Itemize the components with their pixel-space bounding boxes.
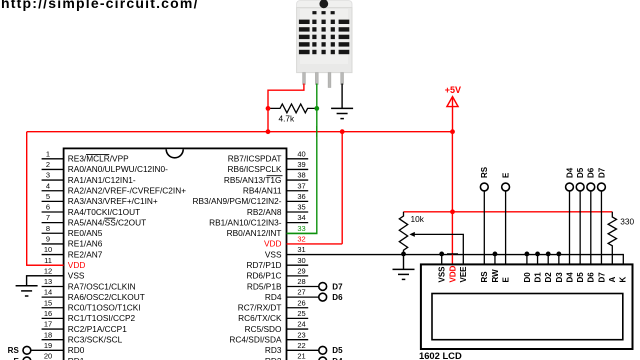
- svg-text:VEE: VEE: [459, 266, 468, 283]
- node RS terminal (U1 RD0): [23, 346, 31, 354]
- svg-text:RE0/AN5: RE0/AN5: [68, 228, 103, 238]
- wire +5V down to LCD VDD: [451, 132, 453, 264]
- LCD pin D3: [558, 254, 560, 265]
- svg-text:17: 17: [44, 320, 52, 329]
- svg-text:RD2: RD2: [265, 356, 282, 360]
- DHT22 top cap: [297, 1, 352, 9]
- svg-text:VDD: VDD: [448, 265, 457, 282]
- DHT22 sensor: [297, 0, 352, 87]
- svg-text:RC6/TX/CK: RC6/TX/CK: [238, 313, 282, 323]
- U1 pin 8 wire: [42, 232, 64, 234]
- svg-text:30: 30: [297, 256, 305, 265]
- svg-text:RB7/ICSPDAT: RB7/ICSPDAT: [228, 154, 282, 164]
- svg-text:20: 20: [44, 352, 52, 360]
- node D7 terminal: [600, 191, 602, 264]
- svg-text:12: 12: [44, 266, 52, 275]
- U1 pin 16 wire: [42, 317, 64, 319]
- svg-text:RA6/OSC2/CLKOUT: RA6/OSC2/CLKOUT: [68, 292, 145, 302]
- svg-text:RS: RS: [480, 166, 489, 178]
- svg-text:1602 LCD: 1602 LCD: [419, 350, 462, 360]
- svg-text:RS: RS: [8, 346, 20, 355]
- DHT22 pin 4: [341, 73, 344, 85]
- wire rail down to U1 pin 32 VDD: [341, 132, 343, 244]
- svg-text:RD1: RD1: [68, 356, 85, 360]
- svg-text:22: 22: [297, 341, 305, 350]
- node D7 terminal (right): [319, 283, 327, 291]
- U1 pin 34 wire: [287, 222, 309, 224]
- U1 pin 27 wire: [287, 296, 319, 298]
- svg-text:RA1/AN1/C12IN1-: RA1/AN1/C12IN1-: [68, 175, 136, 185]
- U1 pin 39 wire: [287, 168, 309, 170]
- svg-text:RE3/MCLR/VPP: RE3/MCLR/VPP: [68, 154, 129, 164]
- svg-text:RD4: RD4: [265, 292, 282, 302]
- junction VDD line / pot-330 line: [450, 209, 455, 214]
- svg-text:RD7/P1D: RD7/P1D: [246, 260, 281, 270]
- U1 pin 17 wire: [42, 328, 64, 330]
- svg-text:11: 11: [44, 256, 52, 265]
- svg-text:RC5/SDO: RC5/SDO: [245, 324, 282, 334]
- +5V power symbol: [447, 97, 458, 132]
- svg-text:29: 29: [297, 266, 305, 275]
- junction bus / LCD RW: [493, 252, 498, 257]
- svg-text:RA2/AN2/VREF-/CVREF/C2IN+: RA2/AN2/VREF-/CVREF/C2IN+: [68, 186, 186, 196]
- U1 pin 37 wire: [287, 190, 309, 192]
- svg-text:D5: D5: [576, 272, 585, 283]
- U1 pin 5 wire: [42, 200, 64, 202]
- U1 pin 22 wire: [287, 349, 319, 351]
- svg-text:36: 36: [297, 192, 305, 201]
- svg-text:4: 4: [46, 181, 50, 190]
- svg-text:35: 35: [297, 203, 305, 212]
- node D4 terminal (right): [319, 357, 327, 360]
- junction bus / LCD D1: [535, 252, 540, 257]
- wire +5V horizontal to pot and 330: [404, 211, 613, 213]
- U1 notch: [166, 149, 183, 158]
- wire DHT pin4 to ground: [341, 84, 343, 109]
- svg-text:RD5/P1B: RD5/P1B: [247, 281, 282, 291]
- svg-text:RD0: RD0: [68, 345, 85, 355]
- DHT22 pin 3: [328, 73, 331, 88]
- ground (U1 VSS): [16, 286, 38, 296]
- junction 4.7k left / +5V: [266, 106, 271, 111]
- svg-text:1: 1: [46, 149, 50, 158]
- svg-text:D3: D3: [555, 272, 564, 283]
- LCD display window: [432, 294, 623, 340]
- svg-text:27: 27: [297, 288, 305, 297]
- LCD pin VSS: [441, 254, 443, 265]
- U1 pin 7 wire: [42, 222, 64, 224]
- U1 pin 1 wire: [42, 158, 64, 160]
- U1 pin 40 wire: [287, 158, 309, 160]
- junction bus / LCD D3: [556, 252, 561, 257]
- U1 pin 18 wire: [42, 339, 64, 341]
- svg-text:RW: RW: [491, 269, 500, 283]
- svg-text:RS: RS: [480, 271, 489, 283]
- resistor 330 backlight: [608, 212, 616, 264]
- junction bus / LCD D0: [525, 252, 530, 257]
- node RS terminal: [483, 191, 485, 264]
- U1 pin 28 wire: [287, 285, 319, 287]
- svg-text:D1: D1: [533, 272, 542, 283]
- svg-text:A: A: [608, 277, 617, 283]
- node D4 terminal: [569, 191, 571, 264]
- U1 pin 31 wire: [287, 254, 624, 256]
- U1 pin 29 wire: [287, 275, 309, 277]
- node D6 terminal: [590, 191, 592, 264]
- svg-text:E: E: [502, 277, 511, 283]
- svg-text:6: 6: [46, 203, 50, 212]
- ground (DHT22): [331, 108, 353, 118]
- svg-text:E: E: [502, 172, 511, 178]
- svg-text:13: 13: [44, 277, 52, 286]
- U1 pin 3 wire: [42, 179, 64, 181]
- svg-text:RB2/AN8: RB2/AN8: [247, 207, 282, 217]
- U1 pin 2 wire: [42, 168, 64, 170]
- svg-text:RA0/AN0/ULPWU/C12IN0-: RA0/AN0/ULPWU/C12IN0-: [68, 164, 168, 174]
- svg-text:33: 33: [297, 224, 305, 233]
- U1 pin 9 wire: [42, 243, 64, 245]
- svg-text:D2: D2: [544, 272, 553, 283]
- svg-text:VSS: VSS: [265, 249, 282, 259]
- svg-text:15: 15: [44, 298, 52, 307]
- U1 pin 14 wire: [42, 296, 64, 298]
- junction rail / +5V symbol: [450, 129, 455, 134]
- svg-text:8: 8: [46, 224, 50, 233]
- svg-text:RC0/T1OSO/T1CKI: RC0/T1OSO/T1CKI: [68, 303, 141, 313]
- DHT22 pin 1: [303, 73, 306, 85]
- svg-text:39: 39: [297, 160, 305, 169]
- svg-text:RC2/P1A/CCP1: RC2/P1A/CCP1: [68, 324, 127, 334]
- U1 pin 36 wire: [287, 200, 309, 202]
- wire green over rail crossing: [316, 126, 318, 137]
- U1 pin 32 wire: [287, 243, 343, 245]
- U1 pin 38 wire: [287, 179, 309, 181]
- U1 pin 26 wire: [287, 307, 309, 309]
- node E terminal (U1 RD1): [23, 357, 31, 360]
- svg-text:38: 38: [297, 171, 305, 180]
- LCD pin D2: [547, 254, 549, 265]
- svg-text:18: 18: [44, 330, 52, 339]
- svg-text:RA7/OSC1/CLKIN: RA7/OSC1/CLKIN: [68, 281, 136, 291]
- svg-text:VDD: VDD: [68, 260, 86, 270]
- svg-text:VDD: VDD: [264, 239, 282, 249]
- node D5 terminal (right): [319, 346, 327, 354]
- svg-text:RE1/AN6: RE1/AN6: [68, 239, 103, 249]
- svg-text:RA4/T0CKI/C1OUT: RA4/T0CKI/C1OUT: [68, 207, 140, 217]
- PIC16F887 microcontroller U1: [27, 148, 624, 360]
- U1 pin 33 wire: [287, 232, 317, 234]
- svg-text:D7: D7: [332, 282, 343, 291]
- svg-text:40: 40: [297, 149, 305, 158]
- U1 pin 6 wire: [42, 211, 64, 213]
- junction bus / LCD D2: [546, 252, 551, 257]
- U1 pin 35 wire: [287, 211, 309, 213]
- svg-text:330: 330: [620, 217, 634, 227]
- svg-text:16: 16: [44, 309, 52, 318]
- svg-text:32: 32: [297, 235, 305, 244]
- DHT22 body: [297, 8, 352, 73]
- svg-text:D6: D6: [587, 272, 596, 283]
- LCD pin D1: [537, 254, 539, 265]
- svg-text:RC3/SCK/SCL: RC3/SCK/SCL: [68, 334, 123, 344]
- svg-text:RC4/SDI/SDA: RC4/SDI/SDA: [229, 334, 282, 344]
- resistor 4.7k pull-up: [268, 104, 317, 113]
- U1 pin 15 wire: [42, 307, 64, 309]
- U1 pin 4 wire: [42, 190, 64, 192]
- svg-text:RC1/T1OSI/CCP2: RC1/T1OSI/CCP2: [68, 313, 136, 323]
- wire U1 VSS pin12 to ground: [27, 276, 64, 286]
- 1602 LCD module: [421, 264, 633, 349]
- wire DHT pin2 data (green) to U1 pin 33: [287, 84, 317, 234]
- U1 pin 25 wire: [287, 317, 309, 319]
- potentiometer RV1 10k: [399, 212, 407, 254]
- svg-text:RB0/AN12/INT: RB0/AN12/INT: [227, 228, 282, 238]
- svg-text:RD3: RD3: [265, 345, 282, 355]
- U1 pin 13 wire: [42, 285, 64, 287]
- svg-text:26: 26: [297, 298, 305, 307]
- svg-text:25: 25: [297, 309, 305, 318]
- U1 chip body: [64, 148, 287, 360]
- svg-text:7: 7: [46, 213, 50, 222]
- svg-text:K: K: [619, 277, 628, 283]
- svg-text:37: 37: [297, 181, 305, 190]
- svg-text:RB3/AN9/PGM/C12IN2-: RB3/AN9/PGM/C12IN2-: [193, 196, 282, 206]
- U1 pin 10 wire: [42, 254, 64, 256]
- U1 pin 11 wire: [27, 264, 64, 266]
- svg-text:D0: D0: [523, 272, 532, 283]
- junction bus / LCD VSS: [439, 252, 444, 257]
- svg-text:10k: 10k: [411, 214, 425, 224]
- title url text: [1, 0, 199, 11]
- svg-text:D5: D5: [576, 167, 585, 178]
- svg-text:10: 10: [44, 245, 52, 254]
- svg-text:D5: D5: [332, 346, 343, 355]
- svg-text:VSS: VSS: [68, 271, 85, 281]
- svg-text:2: 2: [46, 160, 50, 169]
- wire bus down to LCD K pin: [622, 254, 624, 265]
- svg-text:21: 21: [297, 352, 305, 360]
- node E terminal: [505, 191, 507, 264]
- node D5 terminal: [579, 191, 581, 264]
- wire rail down to U1 pin 11 VDD: [27, 132, 64, 266]
- DHT22 vent slots: [299, 11, 349, 54]
- svg-text:+5V: +5V: [445, 85, 461, 95]
- junction rail / DHT pin1 branch: [266, 129, 271, 134]
- node D6 terminal (right): [319, 293, 327, 301]
- svg-text:RE2/AN7: RE2/AN7: [68, 249, 103, 259]
- svg-text:14: 14: [44, 288, 52, 297]
- svg-text:RB5/AN13/T1G: RB5/AN13/T1G: [224, 175, 282, 185]
- svg-text:34: 34: [297, 213, 305, 222]
- svg-text:4.7k: 4.7k: [279, 114, 296, 124]
- svg-text:D4: D4: [565, 167, 574, 178]
- svg-text:RD6/P1C: RD6/P1C: [246, 271, 281, 281]
- svg-text:D6: D6: [332, 293, 343, 302]
- svg-text:RB6/ICSPCLK: RB6/ICSPCLK: [228, 164, 282, 174]
- junction 4.7k right / DHT data: [314, 106, 319, 111]
- svg-text:23: 23: [297, 330, 305, 339]
- ground (bus near LCD): [403, 254, 405, 270]
- DHT22 top circle: [319, 0, 328, 8]
- svg-text:RC7/RX/DT: RC7/RX/DT: [238, 303, 282, 313]
- svg-text:28: 28: [297, 277, 305, 286]
- U1 pin 12 wire: [27, 275, 64, 277]
- junction bus / pot bottom / ground: [401, 252, 406, 257]
- svg-text:VSS: VSS: [438, 266, 447, 283]
- wire bus over VDD crossing: [447, 253, 458, 255]
- svg-text:3: 3: [46, 171, 50, 180]
- svg-text:RA3/AN3/VREF+/C1IN+: RA3/AN3/VREF+/C1IN+: [68, 196, 158, 206]
- svg-text:D4: D4: [565, 272, 574, 283]
- U1 pin 24 wire: [287, 328, 309, 330]
- U1 pin 30 wire: [287, 264, 309, 266]
- junction rail / U1 pin32 branch: [340, 129, 345, 134]
- svg-text:RB4/AN11: RB4/AN11: [243, 186, 282, 196]
- svg-text:D7: D7: [597, 167, 606, 178]
- svg-text:RB1/AN10/C12IN3-: RB1/AN10/C12IN3-: [209, 217, 282, 227]
- +5V rail wire: [27, 131, 453, 133]
- LCD pin D0: [526, 254, 528, 265]
- DHT22 pin 2: [315, 73, 318, 85]
- svg-text:D6: D6: [587, 167, 596, 178]
- svg-text:5: 5: [46, 192, 50, 201]
- U1 pin 19 wire: [31, 349, 64, 351]
- RV1 wiper arrow to LCD VEE: [413, 234, 463, 264]
- svg-text:24: 24: [297, 320, 305, 329]
- svg-text:9: 9: [46, 235, 50, 244]
- svg-text:19: 19: [44, 341, 52, 350]
- wire DHT pin1 to 4.7k node (red): [268, 84, 304, 132]
- U1 pin 23 wire: [287, 339, 309, 341]
- overlines MCLR SS T1G: [86, 154, 283, 218]
- svg-text:D7: D7: [597, 272, 606, 283]
- LCD pin RW: [494, 254, 496, 265]
- svg-text:RA5/AN4/SS/C2OUT: RA5/AN4/SS/C2OUT: [68, 217, 146, 227]
- svg-text:31: 31: [297, 245, 305, 254]
